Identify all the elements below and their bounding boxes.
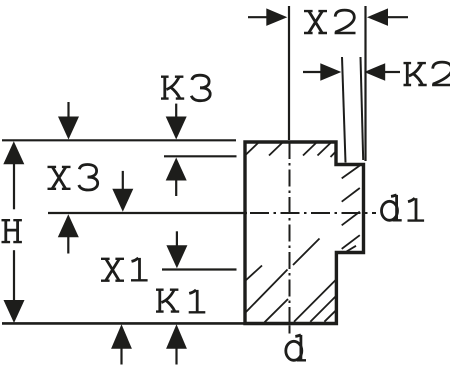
body outline bbox=[245, 142, 364, 324]
arrow K2 left bbox=[320, 63, 341, 81]
shaft K3 bottom bbox=[175, 180, 177, 196]
arrow K1 bottom bbox=[166, 324, 187, 348]
ref line E bottom bbox=[2, 322, 244, 325]
bore line K2 left bbox=[342, 57, 346, 163]
label K2 bbox=[404, 62, 450, 85]
arrow X2 right bbox=[367, 8, 388, 26]
dimension H line lower bbox=[13, 250, 15, 301]
ref line B bbox=[164, 155, 237, 157]
arrow H top bbox=[3, 141, 24, 164]
arrow K3 top bbox=[166, 117, 187, 140]
arrow X3 bottom bbox=[58, 214, 79, 237]
hatch right wall bbox=[342, 166, 360, 179]
shaft X3 top bbox=[67, 102, 69, 118]
extension line X2 right bbox=[364, 6, 366, 161]
tail X2 right bbox=[388, 16, 408, 18]
label d bbox=[286, 335, 306, 360]
label d1 bbox=[382, 195, 425, 221]
label H bbox=[2, 220, 22, 242]
label K1 bbox=[156, 290, 205, 313]
label X1 bbox=[101, 258, 148, 281]
extension line X2 left bbox=[288, 6, 290, 140]
arrow X2 left bbox=[266, 8, 287, 26]
arrow X1 top bbox=[112, 189, 133, 212]
hatch top band bbox=[246, 143, 259, 155]
hatch lower body bbox=[245, 266, 262, 282]
shaft X1 top bbox=[122, 171, 124, 191]
tail K2 right bbox=[385, 71, 400, 73]
vertical centerline tail below body bbox=[289, 325, 291, 333]
tail X2 left bbox=[248, 16, 267, 18]
vertical centerline d bbox=[289, 142, 291, 333]
shaft X1 bottom bbox=[120, 348, 122, 365]
shaft K1 bottom bbox=[175, 348, 177, 365]
shaft K1 top bbox=[176, 231, 178, 247]
bore line K2 right bbox=[361, 57, 364, 160]
label X3 bbox=[48, 165, 98, 191]
arrow X1 bottom bbox=[111, 324, 132, 348]
arrow K2 right bbox=[364, 63, 385, 81]
tail K2 left bbox=[303, 71, 321, 73]
ref line A top bbox=[2, 139, 236, 141]
shaft X3 bottom bbox=[67, 237, 69, 254]
ref line D bbox=[162, 268, 237, 270]
arrow X3 top bbox=[58, 117, 79, 140]
horizontal centerline d1 bbox=[250, 212, 376, 214]
label X2 bbox=[304, 10, 356, 33]
ref line C axis level bbox=[48, 212, 247, 214]
arrow K3 bottom bbox=[166, 158, 187, 181]
dimension H line upper bbox=[13, 163, 15, 209]
shaft K3 top bbox=[175, 104, 177, 118]
label K3 bbox=[161, 75, 210, 101]
arrow K1 top bbox=[166, 245, 187, 268]
arrow H bottom bbox=[4, 300, 25, 323]
